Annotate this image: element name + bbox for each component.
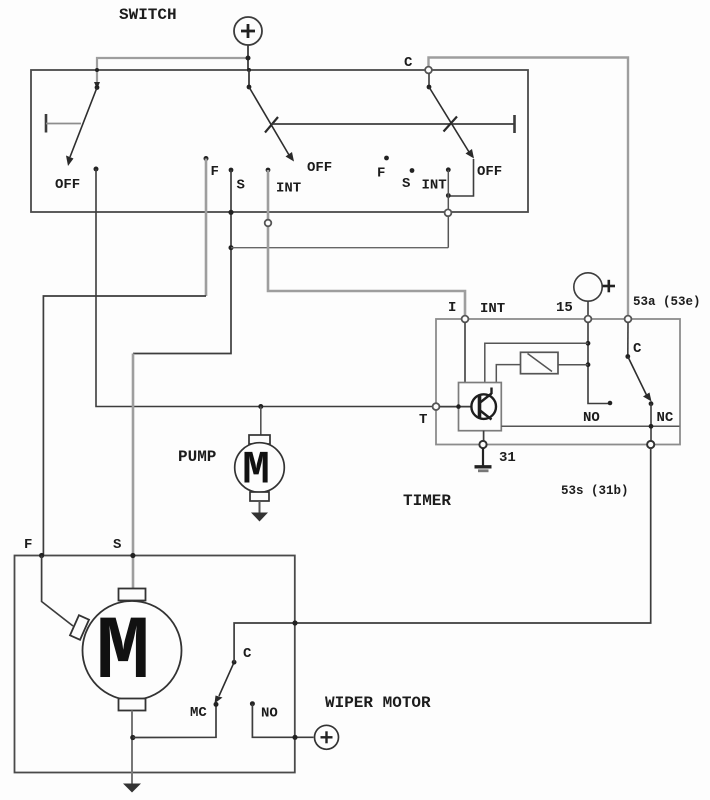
wire F inside box xyxy=(42,556,73,627)
node 31 terminal xyxy=(479,441,486,448)
svg-text:F: F xyxy=(24,537,32,553)
pole2 lever xyxy=(249,87,294,162)
svg-text:NC: NC xyxy=(657,410,674,426)
wire MC contact xyxy=(133,705,216,738)
node T terminal xyxy=(433,403,440,410)
ground 31 xyxy=(475,448,492,471)
svg-text:T: T xyxy=(419,412,427,428)
node NO park xyxy=(250,701,255,706)
node INT1 xyxy=(266,168,271,173)
svg-text:INT: INT xyxy=(276,181,301,197)
switch box xyxy=(31,70,528,212)
node MC xyxy=(214,702,219,707)
svg-text:S: S xyxy=(113,537,121,553)
wire NO park to + xyxy=(252,704,313,738)
junction NO/box edge xyxy=(292,735,297,740)
node S1 xyxy=(229,168,234,173)
wire C park xyxy=(234,623,295,662)
connector circle INT2 box bottom xyxy=(445,209,452,216)
wire from B1 to pole1 pivot (grey) xyxy=(94,58,248,89)
wire S to wiper motor S (grey) xyxy=(132,354,135,589)
pole2 pivot xyxy=(247,85,252,90)
node S2 xyxy=(410,168,415,173)
pole3 pivot xyxy=(427,85,432,90)
node pole2 top crossing xyxy=(247,68,251,72)
junction motor/MC xyxy=(130,735,135,740)
node F2 xyxy=(384,156,389,161)
wire I inside timer xyxy=(464,323,466,383)
node 53a terminal xyxy=(625,316,632,323)
battery B3 (+) wiper xyxy=(315,725,339,749)
node OFF1 terminal xyxy=(94,167,99,172)
junction 15/lineA xyxy=(586,341,591,346)
pole3 riser xyxy=(428,74,430,88)
svg-text:OFF: OFF xyxy=(307,160,332,176)
svg-text:OFF: OFF xyxy=(55,177,80,193)
battery B1 (+) top xyxy=(234,17,262,70)
junction C/rail xyxy=(292,620,297,625)
junction pump tap xyxy=(258,404,263,409)
wire 53a to timer pivot xyxy=(627,323,629,357)
wire F to wiper motor F xyxy=(43,296,206,556)
node NO timer xyxy=(608,401,613,406)
svg-text:S: S xyxy=(237,178,245,194)
wiper motor box xyxy=(15,556,295,773)
pole3 lever xyxy=(429,87,474,159)
wire S1 down xyxy=(133,170,231,354)
node F1 xyxy=(204,156,209,161)
svg-text:INT: INT xyxy=(480,301,505,317)
wire rail NC to wiper motor C xyxy=(295,448,651,623)
svg-text:F: F xyxy=(377,166,385,182)
svg-text:OFF: OFF xyxy=(477,164,502,180)
svg-text:53s (31b): 53s (31b) xyxy=(561,484,629,498)
timer box xyxy=(436,319,680,445)
svg-text:C: C xyxy=(633,341,642,357)
junction S branch xyxy=(229,245,234,250)
wiper motor M1 xyxy=(70,589,181,711)
transistor box xyxy=(459,383,502,431)
svg-text:F: F xyxy=(211,164,219,180)
junction NC/collector xyxy=(649,424,654,429)
wire relay left pin xyxy=(496,365,520,383)
battery B2 (+) timer xyxy=(574,273,615,317)
relay coil K1 xyxy=(521,352,559,373)
svg-text:NO: NO xyxy=(583,410,600,426)
svg-text:INT: INT xyxy=(422,178,447,194)
ground pump xyxy=(251,501,268,522)
park lever xyxy=(215,662,235,703)
node S wiper xyxy=(130,553,135,558)
wire relay right pin xyxy=(558,364,588,366)
svg-text:C: C xyxy=(243,646,252,662)
svg-text:31: 31 xyxy=(499,450,516,466)
wire INT2 down xyxy=(447,170,449,248)
contact end bar xyxy=(513,115,516,133)
timer lever xyxy=(628,357,652,402)
node C terminal circle xyxy=(425,67,432,74)
wire transistor emitter to 31 xyxy=(483,431,485,441)
wire OFF3 contact xyxy=(448,159,473,196)
pole1 pivot xyxy=(95,85,100,90)
wire motor bottom xyxy=(131,711,133,785)
node I terminal xyxy=(462,316,469,323)
node S1 box bottom xyxy=(228,210,233,215)
svg-text:NO: NO xyxy=(261,706,278,722)
node NC-out terminal xyxy=(647,441,654,448)
wire transistor collector to NC line xyxy=(501,425,679,427)
wire 15 down xyxy=(588,323,610,404)
ground wiper motor xyxy=(123,784,141,793)
node NC contact xyxy=(649,401,654,406)
timer lever pivot xyxy=(625,354,630,359)
node 15 terminal xyxy=(585,316,592,323)
wire NC down xyxy=(650,404,652,441)
wire OFF1 to timer T xyxy=(96,169,433,407)
junction OFF3/INT2 xyxy=(446,193,451,198)
node pole1 top crossing xyxy=(95,68,99,72)
svg-text:TIMER: TIMER xyxy=(403,492,451,510)
wire INT1 to timer I (grey) xyxy=(268,170,465,317)
svg-text:M: M xyxy=(242,445,270,497)
svg-text:I: I xyxy=(448,300,456,316)
svg-text:S: S xyxy=(402,176,410,192)
pole1 fixed contact bar xyxy=(46,114,81,133)
pole1 lever xyxy=(66,88,97,167)
svg-text:SWITCH: SWITCH xyxy=(119,6,177,24)
svg-text:15: 15 xyxy=(556,300,573,316)
park pivot xyxy=(232,660,237,665)
svg-text:53a (53e): 53a (53e) xyxy=(633,295,701,309)
svg-text:MC: MC xyxy=(190,705,207,721)
node F wiper xyxy=(39,553,44,558)
wire F1 down (grey) xyxy=(205,159,208,297)
svg-text:WIPER MOTOR: WIPER MOTOR xyxy=(325,694,431,712)
pole2 riser xyxy=(248,70,250,87)
transistor Q1 xyxy=(471,388,496,420)
wire S branch to INT2 xyxy=(231,247,448,249)
connector circle on INT1 wire xyxy=(265,220,272,227)
svg-text:PUMP: PUMP xyxy=(178,448,216,466)
junction T box edge xyxy=(456,404,461,409)
wire C to timer 53a rail (grey) xyxy=(429,58,629,318)
contact line pole2-pole3 xyxy=(272,123,515,125)
wire lineA 15 to transistor xyxy=(485,343,588,382)
pole2 tick mark xyxy=(265,117,278,133)
junction B1/grey wire xyxy=(246,56,251,61)
wire T to transistor xyxy=(440,406,472,408)
junction 15/relay xyxy=(586,362,591,367)
pole3 tick mark xyxy=(444,117,458,132)
svg-text:M: M xyxy=(96,603,150,705)
node INT2 xyxy=(446,167,451,172)
svg-text:C: C xyxy=(404,55,413,71)
pump motor P1 xyxy=(235,407,285,502)
